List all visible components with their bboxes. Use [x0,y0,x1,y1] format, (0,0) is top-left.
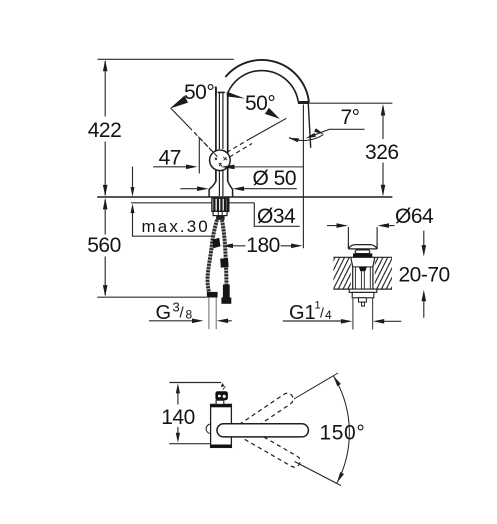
svg-text:422: 422 [88,119,122,142]
svg-text:G: G [156,302,172,324]
svg-text:4: 4 [325,308,332,322]
svg-text:7°: 7° [341,106,360,129]
svg-text:Ø 50: Ø 50 [253,167,297,190]
svg-text:180: 180 [246,234,280,257]
svg-text:47: 47 [159,146,181,169]
svg-text:140: 140 [161,406,195,429]
svg-text:326: 326 [365,141,399,164]
svg-text:Ø64: Ø64 [395,205,434,228]
svg-text:50°: 50° [245,92,275,115]
svg-text:max.30: max.30 [142,217,210,236]
svg-text:50°: 50° [184,81,214,104]
svg-text:20-70: 20-70 [399,263,450,286]
svg-text:8: 8 [186,307,193,321]
svg-text:560: 560 [87,234,121,257]
svg-text:G1: G1 [289,302,316,324]
svg-text:Ø34: Ø34 [257,205,296,228]
svg-text:150°: 150° [320,422,366,445]
svg-text:/: / [320,304,324,320]
